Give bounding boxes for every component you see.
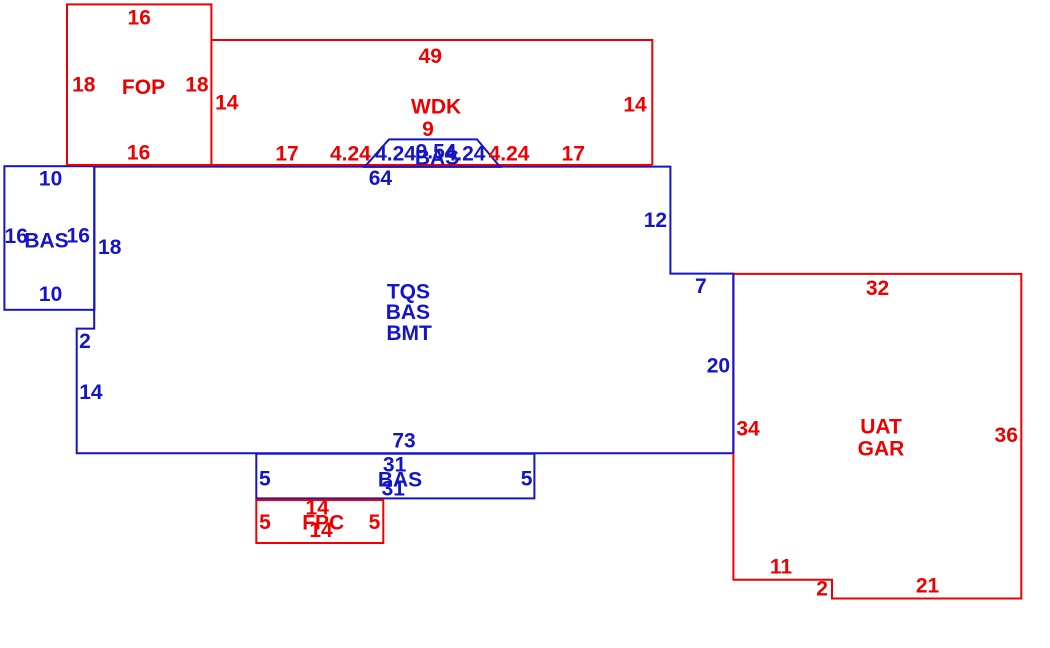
svg-text:FOP: FOP bbox=[122, 76, 165, 99]
svg-text:49: 49 bbox=[419, 45, 442, 68]
svg-text:GAR: GAR bbox=[858, 438, 905, 461]
svg-text:17: 17 bbox=[275, 142, 298, 165]
svg-text:7: 7 bbox=[695, 275, 707, 298]
svg-text:18: 18 bbox=[185, 74, 209, 97]
svg-text:12: 12 bbox=[644, 209, 667, 232]
svg-text:18: 18 bbox=[98, 236, 122, 259]
svg-text:10: 10 bbox=[39, 167, 62, 190]
svg-text:2: 2 bbox=[816, 577, 828, 600]
svg-text:TQS: TQS bbox=[387, 281, 430, 304]
svg-text:17: 17 bbox=[562, 142, 585, 165]
svg-text:73: 73 bbox=[392, 430, 415, 453]
svg-text:10: 10 bbox=[39, 283, 62, 306]
svg-text:36: 36 bbox=[995, 424, 1018, 447]
svg-text:4.24: 4.24 bbox=[375, 142, 416, 165]
svg-text:5: 5 bbox=[259, 511, 271, 534]
svg-text:14: 14 bbox=[79, 381, 103, 404]
svg-text:4.24: 4.24 bbox=[330, 142, 371, 165]
svg-text:14: 14 bbox=[309, 519, 333, 542]
svg-text:18: 18 bbox=[72, 74, 96, 97]
svg-text:20: 20 bbox=[707, 354, 730, 377]
svg-text:BAS: BAS bbox=[386, 301, 430, 324]
svg-text:WDK: WDK bbox=[411, 95, 461, 118]
svg-text:5: 5 bbox=[369, 511, 381, 534]
svg-text:34: 34 bbox=[736, 418, 760, 441]
svg-text:14: 14 bbox=[215, 91, 239, 114]
svg-text:64: 64 bbox=[369, 167, 393, 190]
svg-text:4.24: 4.24 bbox=[489, 142, 530, 165]
svg-text:16: 16 bbox=[67, 225, 90, 248]
svg-text:5: 5 bbox=[521, 468, 533, 491]
svg-text:32: 32 bbox=[866, 277, 889, 300]
svg-text:UAT: UAT bbox=[860, 416, 902, 439]
svg-text:21: 21 bbox=[916, 574, 940, 597]
svg-text:14: 14 bbox=[623, 94, 647, 117]
svg-text:11: 11 bbox=[770, 556, 793, 579]
svg-text:4.24: 4.24 bbox=[445, 142, 486, 165]
svg-text:31: 31 bbox=[382, 478, 406, 501]
svg-text:16: 16 bbox=[127, 142, 150, 165]
svg-text:BMT: BMT bbox=[386, 322, 432, 345]
svg-text:2: 2 bbox=[79, 330, 91, 353]
svg-text:9: 9 bbox=[422, 118, 434, 141]
svg-text:BAS: BAS bbox=[24, 229, 68, 252]
svg-text:16: 16 bbox=[128, 7, 151, 30]
svg-text:5: 5 bbox=[259, 468, 271, 491]
